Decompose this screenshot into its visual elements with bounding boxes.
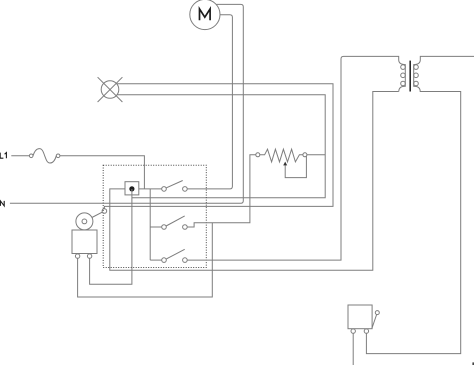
rheostat R1 right terminal xyxy=(303,153,307,157)
wire: bus to S3 left contact xyxy=(150,259,162,261)
bell / igniter B1 xyxy=(76,213,93,230)
wire: lamp top terminal right, down at x333, left along y206.4 to bell lever contact xyxy=(104,84,333,209)
wire: rheostat right terminal to lamp-bottom vertical xyxy=(307,154,325,156)
fuse FU1 lead-in xyxy=(11,155,29,157)
SP1 left terminal xyxy=(351,329,355,333)
transformer secondary: top lead to right edge, winding, bottom lead down right side to SP1 xyxy=(366,56,474,353)
wire: coil right to switch S1 left contact xyxy=(139,188,162,190)
transformer T1 primary loops xyxy=(401,65,406,70)
SP1 lever knob xyxy=(375,311,379,315)
SP1 lever xyxy=(372,315,377,329)
valve left terminal xyxy=(75,254,79,258)
wire: lamp bottom terminal right, down at x325.2 to line y197.8, left to relay dot xyxy=(117,95,325,198)
rheostat R1 element xyxy=(260,149,303,162)
lamp EL1 (circle with cross) xyxy=(98,77,123,102)
SP1 right terminal xyxy=(364,329,368,333)
wire: coil left side, down x109.8, right along y270.2, up x372.8 to transformer primary bottom xyxy=(110,92,399,271)
gas valve Y1 body xyxy=(72,230,97,254)
switch S1 xyxy=(162,187,167,192)
switch S3 xyxy=(162,258,167,263)
wire: S1/S2/S3 left bus xyxy=(149,189,151,260)
wire: coil dot down, left along y284.3, up to valve right terminal xyxy=(90,189,132,284)
wire: bus to S2 left contact xyxy=(150,226,162,228)
bell lever to terminal xyxy=(92,212,103,217)
wire: fuse output right then down to relay/S1 node xyxy=(60,156,144,189)
valve right terminal xyxy=(87,254,91,258)
rheostat wiper return xyxy=(285,156,306,178)
rheostat wiper arrowhead xyxy=(283,162,287,166)
fuse FU1 thermal element xyxy=(33,149,56,163)
wire: tee down x212.3, left along y297, up to valve left terminal xyxy=(78,223,213,297)
label N xyxy=(0,201,4,206)
fuse FU1 left node xyxy=(29,154,33,158)
wire: motor top terminal right and down to N line xyxy=(10,4,243,203)
switch S2 xyxy=(162,225,167,230)
motor M1 xyxy=(190,0,220,30)
transformer core xyxy=(409,61,411,92)
fuse FU1 right node xyxy=(56,154,60,158)
wire: SP1 left terminal down to page edge xyxy=(352,333,354,365)
dashed enclosure (controller) xyxy=(103,165,206,267)
relay coil K1 (square with dot) xyxy=(125,182,139,195)
transformer secondary loops xyxy=(414,65,419,70)
wire: S2 right contact, jog up, right to rheostat left terminal xyxy=(187,155,256,227)
rheostat R1 left terminal xyxy=(256,153,260,157)
wire: S3 right contact, up x341, right to transformer primary top winding xyxy=(187,56,405,260)
corner mark xyxy=(472,362,474,365)
node: bell lever terminal xyxy=(102,209,107,214)
pressure switch SP1 body xyxy=(348,305,372,329)
label L1 xyxy=(0,153,6,159)
wire: motor right terminal right and down to switch S1 right contact xyxy=(187,15,232,189)
